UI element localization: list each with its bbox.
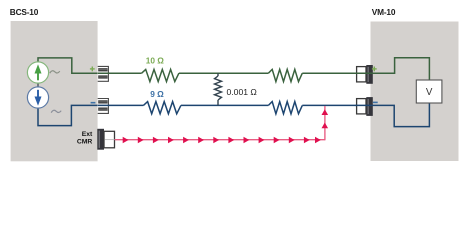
enclosure box VM-10 [371, 22, 459, 162]
resistor R2 9 ohm (blue lead) [143, 102, 181, 114]
wire: series link between I1 and I2 [37, 83, 39, 88]
wire: blue run R4 to J4 [302, 104, 373, 106]
net: common-mode guard path (red, vertical rise to blue LO) [324, 106, 326, 140]
connector J4: VM-10 - input plug [357, 97, 373, 116]
wire: J3 to voltmeter high (green) [373, 58, 430, 80]
wire: blue through J4 [356, 104, 373, 106]
guard path arrowheads (upward) [322, 109, 329, 128]
enclosure box BCS-10 [11, 21, 98, 161]
AC squiggle for I1 [50, 71, 60, 73]
svg-text:CMR: CMR [77, 139, 93, 146]
resistor R3 (green lead, unlabeled) [268, 69, 302, 81]
svg-text:V: V [426, 87, 433, 98]
resistor R1 10 ohm (green lead) [142, 69, 179, 81]
current source I1 (AC, green, arrow up) [27, 62, 48, 83]
AC squiggle for I2 [51, 110, 61, 112]
svg-text:BCS-10: BCS-10 [10, 7, 39, 17]
guard path arrowheads (rightward) [123, 137, 321, 144]
svg-text:10 Ω: 10 Ω [146, 56, 165, 66]
wire: source I1 output to + terminal (green) [38, 58, 98, 73]
label - at J4 [373, 101, 378, 103]
wire: green run R3 to J3 [302, 72, 373, 74]
resistor R5 0.001 ohm shunt (vertical) [215, 73, 222, 105]
wire: green force-HI run J1 to R1 [98, 72, 142, 74]
connector J2: BCS-10 - output jack [98, 99, 109, 114]
svg-text:Ext: Ext [82, 131, 93, 138]
label - at J2 [91, 102, 96, 104]
wire: blue force-LO run J2 to R2 [98, 104, 143, 106]
net: common-mode guard path (red dashed, horizontal) [115, 139, 325, 141]
svg-text:0.001 Ω: 0.001 Ω [227, 87, 258, 97]
connector J5: Ext CMR jack [97, 129, 114, 150]
wire: green run R1 to R3 [179, 72, 269, 74]
label Ext CMR [77, 131, 93, 145]
connector J3: VM-10 + input plug [357, 65, 373, 84]
label + at J3 [372, 67, 377, 72]
resistor R4 (blue lead, unlabeled) [268, 102, 302, 114]
svg-text:9 Ω: 9 Ω [150, 89, 164, 99]
label + at J1 [90, 67, 95, 72]
wire: J4 to voltmeter low (blue) [373, 103, 430, 127]
current source I2 (AC, blue, arrow down) [27, 87, 48, 108]
wire: source I2 output to - terminal (blue) [38, 105, 98, 125]
connector J1: BCS-10 + output jack [98, 66, 109, 81]
wire: green through J3 [356, 72, 373, 74]
svg-text:VM-10: VM-10 [372, 7, 396, 17]
wire: blue run R2 to R4 [181, 104, 269, 106]
voltmeter M1 [416, 80, 442, 103]
